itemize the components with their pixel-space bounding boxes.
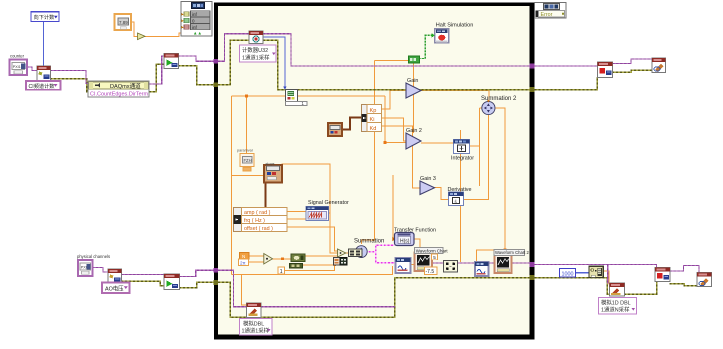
svg-text:Summation: Summation — [354, 239, 384, 245]
svg-text:1通道1采样: 1通道1采样 — [242, 53, 270, 61]
DAQmx stop AO — [655, 268, 670, 282]
svg-text:1通道N采样: 1通道N采样 — [601, 306, 630, 314]
wire iconA out — [305, 255, 338, 257]
wire cluster2 to signal generator column — [282, 164, 349, 253]
svg-text:FZH: FZH — [244, 158, 252, 163]
svg-text:2π: 2π — [240, 260, 246, 265]
wire memory feedback horizontal — [232, 95, 286, 97]
wire const1 to divide — [249, 255, 264, 257]
wire iconB out — [303, 264, 334, 266]
halt compare node — [409, 56, 420, 63]
Gain 3 triangle — [420, 181, 435, 195]
conversion node on wire — [138, 33, 146, 40]
collector node dots — [444, 261, 458, 273]
task wire branch to write 1D — [607, 264, 609, 283]
svg-text:5: 5 — [433, 255, 436, 260]
wire branch to sim waveform 2 — [477, 250, 505, 263]
svg-text:stops: stops — [266, 162, 275, 166]
svg-text:frq ( Hz ): frq ( Hz ) — [244, 218, 265, 224]
task wire counter control to create — [27, 67, 37, 71]
tunnel olive right bottom — [529, 275, 534, 280]
unbundle by name signal — [234, 208, 288, 232]
svg-text:AO电压: AO电压 — [105, 285, 124, 293]
error wire AO inside loop bottom — [218, 278, 532, 318]
task wire stop AO to clear AO — [670, 266, 699, 273]
svg-text:Waveform Chart: Waveform Chart — [416, 248, 449, 253]
wire Kd to Gain 3 — [382, 126, 421, 188]
wire Ki to Gain 2 — [382, 118, 407, 141]
svg-text:Halt Simulation: Halt Simulation — [436, 22, 474, 28]
svg-text:Derivative: Derivative — [448, 187, 472, 193]
error wires olive — [50, 40, 697, 317]
CI channel type dropdown — [26, 81, 61, 90]
express nodeA pair — [349, 249, 363, 257]
sim timer nodeB — [290, 264, 303, 269]
svg-text:inf: inf — [192, 25, 198, 30]
unbundle by name Kp Ki Kd — [362, 105, 382, 132]
memory unit delay node — [283, 87, 286, 90]
wire Gain 3 out to Derivative — [435, 188, 449, 200]
magenta sim wires — [367, 245, 396, 263]
sim loop timer nodeA — [291, 254, 305, 262]
DAQmx write analog DBL — [247, 303, 262, 318]
Gain 2 triangle — [406, 133, 421, 149]
wire Kp to Gain — [382, 91, 407, 110]
svg-text:physical channels: physical channels — [77, 254, 110, 259]
wire Gain 2 out to Integrator — [421, 142, 453, 144]
polymorphic selector label counter U32 — [240, 45, 277, 62]
wire frq row — [285, 218, 306, 220]
wire const 1 out — [284, 265, 335, 271]
wire build waveform down to write — [603, 271, 610, 284]
DAQmx task wires purple — [27, 34, 699, 307]
junction dots orange — [245, 95, 248, 98]
wire integrator stub down — [480, 108, 482, 186]
svg-text:DAQmx通道: DAQmx通道 — [110, 82, 141, 90]
error wire read across loop to right tunnel — [263, 40, 532, 90]
svg-text:Gain: Gain — [407, 78, 418, 84]
error wire create CI to property node — [50, 79, 88, 92]
svg-text:▲▲: ▲▲ — [193, 31, 202, 36]
error wire stop to clear counter — [612, 70, 652, 72]
multiply primitive — [338, 249, 346, 257]
simulation loop frame — [214, 2, 535, 339]
svg-text:Error: Error — [541, 12, 553, 18]
svg-text:Waveform Chart 2: Waveform Chart 2 — [495, 250, 529, 255]
task wire start AO to loop tunnel — [179, 270, 214, 276]
sim time waveform node 2 — [475, 262, 489, 276]
Halt Simulation node — [432, 29, 449, 43]
wire Summation 2 out down — [495, 108, 505, 255]
AO voltage dropdown — [102, 283, 130, 294]
brown cluster wires — [266, 118, 362, 209]
DAQmx create channel AO — [108, 269, 122, 285]
wire offset row — [285, 227, 338, 251]
task wire create CI to property node — [50, 71, 88, 84]
error wire property node to start counter — [149, 64, 164, 92]
numeric constant pi — [239, 253, 250, 266]
blue integer wires — [44, 22, 590, 273]
tunnel purple right top — [529, 64, 534, 69]
svg-text:7.89: 7.89 — [119, 20, 128, 25]
Summation 2 circle — [482, 101, 495, 114]
svg-text:inf: inf — [192, 12, 198, 17]
Summation circle — [355, 246, 367, 258]
svg-text:模拟1D DBL: 模拟1D DBL — [601, 299, 631, 307]
DAQmx clear AO — [697, 273, 712, 287]
ring constant count direction dropdown — [31, 12, 59, 22]
error wire create AO to start AO — [121, 281, 164, 286]
error wire start counter to loop tunnel — [178, 66, 214, 85]
svg-text:Transfer Function: Transfer Function — [394, 228, 436, 234]
Signal Generator node — [306, 207, 329, 221]
error wire tunnel to write 1D — [535, 278, 610, 295]
task wire stop to clear counter — [612, 59, 652, 64]
DAQmx channel property node — [88, 81, 149, 97]
task wire chart row to right tunnel — [432, 262, 532, 264]
tunnel olive right top — [529, 87, 534, 92]
tunnel purple right bottom — [529, 262, 534, 267]
cluster constant PID gains — [328, 123, 342, 136]
task wire analog write out — [261, 306, 395, 308]
DAQmx clear counter — [652, 58, 666, 73]
numeric control sim time step — [115, 14, 132, 30]
task wire read to right tunnel — [263, 34, 532, 66]
Derivative node — [449, 192, 464, 206]
svg-text:向下计数: 向下计数 — [34, 13, 56, 21]
wire sim-time control to loop input node — [131, 22, 181, 37]
Transfer Function node — [392, 237, 395, 241]
numeric constant 1 — [278, 267, 285, 275]
DAQmx start AO — [164, 274, 180, 290]
task wire tunnel to stop counter — [535, 65, 599, 67]
write label — [240, 319, 273, 336]
wire transfer function out to chart — [414, 239, 420, 253]
boolean wire green — [419, 35, 432, 58]
task wire start to loop tunnel — [178, 56, 214, 61]
wire left long vertical — [231, 96, 233, 275]
svg-text:Kd: Kd — [370, 126, 377, 132]
DAQmx stop counter — [598, 62, 613, 78]
Waveform Chart 2 terminal — [495, 255, 512, 274]
wire sim waveform 1 to chart — [410, 264, 415, 266]
wire compare node down to Gain 2 — [412, 63, 414, 133]
svg-text:Kp: Kp — [370, 108, 377, 114]
wire summation feed vertical — [361, 60, 374, 244]
Waveform Chart terminal — [415, 253, 433, 272]
wire Integrator out to Summation 2 — [469, 145, 479, 147]
svg-text:CI频道计数: CI频道计数 — [29, 82, 56, 90]
task wire tunnel to counter read — [218, 34, 249, 62]
svg-text:Summation 2: Summation 2 — [481, 96, 517, 102]
svg-text:paramval: paramval — [237, 149, 253, 153]
svg-text:offset ( rad ): offset ( rad ) — [244, 226, 273, 232]
DAQmx create channel CI — [37, 66, 51, 81]
svg-text:PXI1: PXI1 — [13, 65, 21, 69]
wire signal generator out — [328, 212, 330, 214]
DAQmx write 1D — [610, 283, 625, 296]
divide primitive — [264, 254, 273, 265]
build waveform node — [589, 266, 603, 277]
constant -7.5 — [425, 267, 438, 275]
svg-text:1通道1采样: 1通道1采样 — [242, 327, 270, 335]
wire branch to analog write — [242, 275, 247, 306]
constant 5 — [425, 254, 438, 275]
sim time waveform node 1 — [396, 258, 411, 273]
control AO physical channels — [78, 260, 93, 276]
task wire property node to start — [149, 56, 164, 84]
task wire tunnel to stop AO — [535, 264, 657, 268]
wire to halt compare node — [375, 59, 408, 61]
wire Derivative out to Summation 2 — [463, 115, 488, 200]
svg-text:Gain 2: Gain 2 — [406, 128, 422, 134]
wire long vertical through integrator — [460, 130, 462, 262]
svg-text:1: 1 — [280, 269, 283, 275]
svg-text:-7.5: -7.5 — [426, 269, 435, 275]
chart 2 label — [494, 250, 525, 256]
svg-text:CI.CountEdges.DirTerm: CI.CountEdges.DirTerm — [90, 91, 148, 97]
task wire tunnel to analog write — [218, 270, 247, 306]
Integrator node — [454, 140, 470, 154]
chart label — [415, 248, 444, 254]
svg-text:counter: counter — [10, 54, 25, 59]
wire branch down to paramval — [246, 96, 248, 153]
tunnel olive left top — [213, 83, 218, 88]
DAQmx read counter U32 — [249, 31, 263, 44]
express nodeB pair — [334, 258, 348, 266]
svg-text:H(s): H(s) — [400, 239, 410, 245]
DAQmx start counter — [164, 54, 179, 69]
wire bottom run to right — [232, 266, 393, 275]
task wire AO control to create — [92, 268, 109, 273]
tunnel purple left bottom — [213, 268, 218, 273]
write 1D label — [599, 298, 637, 315]
wire Gain out to Summation 2 — [421, 91, 489, 102]
svg-text:Integrator: Integrator — [451, 156, 474, 162]
svg-text:1000: 1000 — [562, 271, 574, 277]
wire amp row — [285, 211, 306, 213]
simulation loop output node Error — [535, 3, 567, 19]
numeric constant 2pi — [239, 259, 249, 266]
svg-text:计数器U32: 计数器U32 — [242, 46, 268, 54]
tunnel olive left bottom — [213, 280, 218, 285]
numeric constant 1000 — [560, 269, 576, 278]
wire divide out — [272, 258, 291, 260]
error wire stop AO to clear AO — [670, 284, 698, 286]
svg-text:Gain 3: Gain 3 — [420, 176, 436, 182]
svg-text:amp ( rad ): amp ( rad ) — [244, 210, 271, 216]
Gain triangle — [406, 83, 421, 98]
error wire tunnel to stop counter — [535, 77, 598, 89]
svg-text:模拟DBL: 模拟DBL — [243, 320, 264, 328]
wire const2 to divide — [248, 261, 264, 263]
svg-text:N: N — [242, 254, 245, 259]
cluster constant signal params — [264, 165, 282, 183]
tunnel purple left top — [213, 59, 218, 64]
svg-text:Signal Generator: Signal Generator — [308, 200, 349, 206]
error wire write 1D to stop AO — [624, 281, 656, 294]
task wire create AO to start AO — [121, 274, 164, 276]
error wire tunnel to counter read — [218, 40, 249, 85]
control counter physical channel — [10, 60, 28, 76]
svg-text:Ki: Ki — [370, 117, 375, 123]
error wire start AO to loop tunnel — [179, 282, 214, 287]
simulation loop input node — [181, 2, 212, 37]
wire left mid horizontal — [232, 174, 265, 176]
